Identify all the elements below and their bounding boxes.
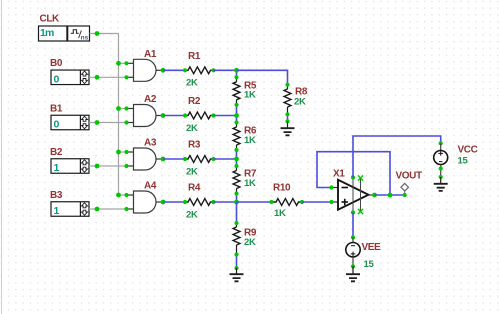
svg-text:15: 15 [458,156,469,167]
wire power rail to VCC [353,136,441,178]
wire R10 to op-amp [302,201,332,203]
wire branch to A2 [119,108,127,110]
wire A4 to R4 [163,201,185,203]
resistor R9 [233,221,257,270]
junction bus A2 [116,106,121,111]
svg-text:R10: R10 [273,183,291,194]
junction node row1 [234,68,239,73]
svg-text:R4: R4 [188,183,201,194]
svg-text:R1: R1 [188,51,201,62]
svg-text:A3: A3 [144,138,157,149]
wire CLK bus vertical [118,34,120,196]
svg-text:VEE: VEE [362,242,382,253]
wire A1 to R1 [163,69,185,71]
wire B3 to A4 [89,208,127,210]
source VEE [346,238,381,270]
resistor R6 [233,116,257,160]
svg-text:A1: A1 [144,49,157,60]
digital source B2 [50,147,89,174]
svg-text:15: 15 [364,259,375,270]
junction bus A1 [116,61,121,66]
wire R4 to node [214,201,237,203]
svg-text:1K: 1K [244,90,256,101]
wire B2 to A3 [89,165,127,167]
wire node to R10 [237,201,272,203]
svg-text:1m: 1m [40,27,54,39]
wire R2 to node [214,115,237,117]
junction bus A3 [116,150,121,155]
source VCC [434,143,478,179]
ground under VCC [434,177,448,191]
ground under R9 [230,268,244,281]
wire branch to A1 [119,62,127,64]
junction bus A4 [116,193,121,198]
resistor R5 [233,70,257,115]
svg-text:R2: R2 [188,96,201,107]
svg-text:1K: 1K [274,208,286,219]
resistor R4 [183,183,216,221]
svg-text:2K: 2K [244,237,256,248]
svg-text:B0: B0 [50,58,63,69]
clock source CLK [39,14,90,42]
svg-text:A4: A4 [144,181,157,192]
and gate A1 [124,49,165,81]
wire B1 to A2 [89,122,127,124]
node VOUT [396,171,422,198]
resistor R10 [269,183,304,219]
svg-text:ns: ns [81,35,89,42]
wire A3 to R3 [163,158,185,160]
junction node row2 [234,113,239,118]
junction node row3 [234,157,239,162]
resistor R8 [284,83,308,124]
digital source B1 [50,103,89,130]
ground under R8 [281,121,295,135]
node B3 pin [95,207,100,212]
svg-text:X1: X1 [333,169,345,180]
ground under VEE [346,266,360,281]
wire node to R9 [236,202,238,223]
svg-text:1K: 1K [244,178,256,189]
wire CLK output [90,33,119,35]
node B2 pin [95,164,100,169]
svg-text:VOUT: VOUT [396,171,422,182]
svg-text:2K: 2K [186,78,198,89]
svg-text:VCC: VCC [458,144,478,155]
and gate A4 [124,181,165,213]
svg-text:R3: R3 [188,140,201,151]
wire feedback loop [317,152,390,195]
wire branch to A4 [119,194,127,196]
junction feedback/output [388,193,393,198]
svg-text:B1: B1 [50,103,63,114]
node VCC pin [439,141,443,145]
wire R1 to node [214,69,237,71]
svg-text:2K: 2K [294,97,306,108]
digital source B0 [50,58,89,85]
wire node to R8 [237,70,288,84]
and gate A3 [124,138,165,170]
wire branch to A3 [119,151,127,153]
resistor R2 [183,96,216,134]
digital source B3 [50,190,89,217]
node B0 pin [95,75,100,80]
junction node row4 [234,200,239,205]
svg-text:A2: A2 [144,94,157,105]
svg-text:CLK: CLK [40,14,61,25]
resistor R3 [183,140,216,178]
resistor R1 [183,51,216,89]
node VEE pin [351,235,355,239]
op-amp X1 [329,169,377,215]
wire B0 to A1 [89,76,127,78]
svg-text:2K: 2K [186,209,198,220]
svg-text:2K: 2K [186,166,198,177]
wire op-amp output [375,194,405,196]
wire R3 to node [214,158,237,160]
node CLK pin [95,31,100,36]
svg-text:1K: 1K [244,135,256,146]
node B1 pin [95,120,100,125]
resistor R7 [233,159,257,202]
wire op-amp to VEE [352,213,354,238]
and gate A2 [124,94,165,126]
svg-text:B3: B3 [50,190,63,201]
wire A2 to R2 [163,115,185,117]
svg-text:2K: 2K [186,123,198,134]
svg-text:B2: B2 [50,147,63,158]
